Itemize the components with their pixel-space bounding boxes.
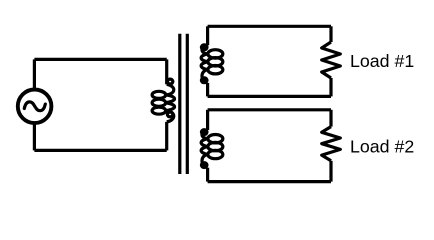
- inductor secondary winding 2: [201, 130, 223, 168]
- inductor primary winding: [152, 79, 174, 122]
- wire primary top: [34, 58, 166, 61]
- wire primary right upper: [165, 59, 168, 84]
- transformer core line 1: [178, 34, 181, 174]
- wire primary right lower: [165, 122, 168, 151]
- ac source V1 sine wave: [24, 102, 45, 111]
- wire secondary1 right lower: [329, 78, 332, 96]
- inductor secondary winding 1: [201, 45, 223, 83]
- wire secondary2 bottom: [208, 180, 331, 183]
- resistor Load #2: [322, 127, 341, 161]
- wire secondary2 left upper: [206, 110, 209, 130]
- transformer core line 2: [186, 34, 189, 174]
- resistor Load #1: [322, 42, 341, 78]
- wire secondary1 left lower: [206, 83, 209, 97]
- wire secondary1 bottom: [208, 95, 331, 98]
- wire secondary1 top: [208, 25, 331, 28]
- wire secondary1 right upper: [329, 26, 332, 42]
- svg-text:Load #2: Load #2: [350, 136, 414, 156]
- ac source V1 circle: [18, 90, 52, 124]
- wire primary bottom: [34, 149, 166, 152]
- wire secondary2 left lower: [206, 168, 209, 182]
- wire primary left upper: [33, 59, 36, 89]
- wire secondary2 right upper: [329, 110, 332, 127]
- wire secondary2 right lower: [329, 161, 332, 182]
- wire primary left lower: [33, 123, 36, 150]
- svg-text:Load #1: Load #1: [350, 51, 414, 71]
- wire secondary2 top: [208, 108, 331, 111]
- wire secondary1 left upper: [206, 26, 209, 45]
